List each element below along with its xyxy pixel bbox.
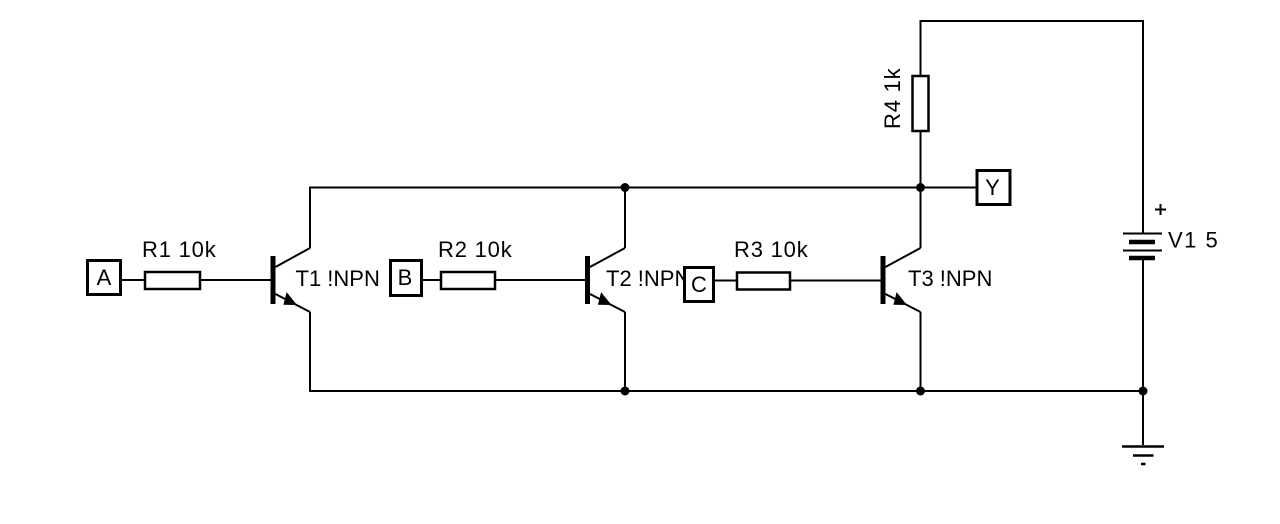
wire collector bus (node Y rail) bbox=[309, 187, 976, 189]
svg-text:C: C bbox=[691, 272, 707, 297]
svg-text:R3 10k: R3 10k bbox=[734, 237, 809, 262]
node A (input port box) bbox=[88, 261, 121, 295]
svg-text:T2 !NPN: T2 !NPN bbox=[606, 266, 690, 291]
wire T3 collector up bbox=[920, 188, 922, 249]
resistor R1 bbox=[142, 237, 217, 289]
svg-text:R2 10k: R2 10k bbox=[438, 237, 513, 262]
wire R2 to T2 base bbox=[496, 279, 586, 281]
wire T1 collector up bbox=[309, 188, 311, 249]
node junction dot T2 emitter bbox=[621, 387, 630, 396]
wire R3 to T3 base bbox=[791, 280, 881, 282]
wire T1 emitter down bbox=[309, 312, 311, 391]
wire T3 emitter down bbox=[920, 312, 922, 391]
svg-text:B: B bbox=[398, 265, 413, 290]
wire battery positive lead bbox=[1142, 20, 1144, 233]
svg-text:T1 !NPN: T1 !NPN bbox=[296, 266, 380, 291]
svg-text:R4 1k: R4 1k bbox=[880, 67, 905, 129]
node junction dot T3 collector / Y bbox=[916, 183, 925, 192]
node Y (output port box) bbox=[977, 171, 1010, 205]
wire top rail to battery bbox=[920, 20, 1144, 22]
svg-text:R1 10k: R1 10k bbox=[142, 237, 217, 262]
wire T2 collector up bbox=[624, 188, 626, 249]
wire emitter bus (ground rail) bbox=[309, 390, 1143, 392]
battery V1 plus sign bbox=[1155, 204, 1166, 215]
wire C to R3 bbox=[715, 280, 736, 282]
node junction dot T2 collector bbox=[621, 183, 630, 192]
transistor T1 bbox=[271, 248, 380, 312]
svg-text:T3 !NPN: T3 !NPN bbox=[908, 266, 992, 291]
wire R4 top lead bbox=[920, 21, 922, 75]
wire A to R1 bbox=[122, 279, 144, 281]
battery V1 bbox=[1123, 228, 1219, 259]
resistor R4 bbox=[880, 67, 929, 131]
svg-text:A: A bbox=[97, 265, 112, 290]
ground bbox=[1122, 447, 1164, 465]
node C (input port box) bbox=[685, 268, 714, 302]
resistor R2 bbox=[438, 237, 513, 289]
wire T2 emitter down bbox=[624, 312, 626, 391]
transistor T3 bbox=[881, 248, 993, 312]
wire B to R2 bbox=[422, 279, 440, 281]
wire R1 to T1 base bbox=[201, 279, 271, 281]
svg-text:V1 5: V1 5 bbox=[1168, 228, 1219, 253]
node junction dot T3 emitter bbox=[916, 387, 925, 396]
node B (input port box) bbox=[391, 261, 422, 296]
wire battery negative lead bbox=[1142, 258, 1144, 445]
svg-text:Y: Y bbox=[985, 175, 1000, 200]
node junction dot battery/ground rail bbox=[1139, 387, 1148, 396]
transistor T2 bbox=[585, 248, 690, 312]
resistor R3 bbox=[734, 237, 809, 290]
wire R4 bottom lead bbox=[920, 131, 922, 188]
